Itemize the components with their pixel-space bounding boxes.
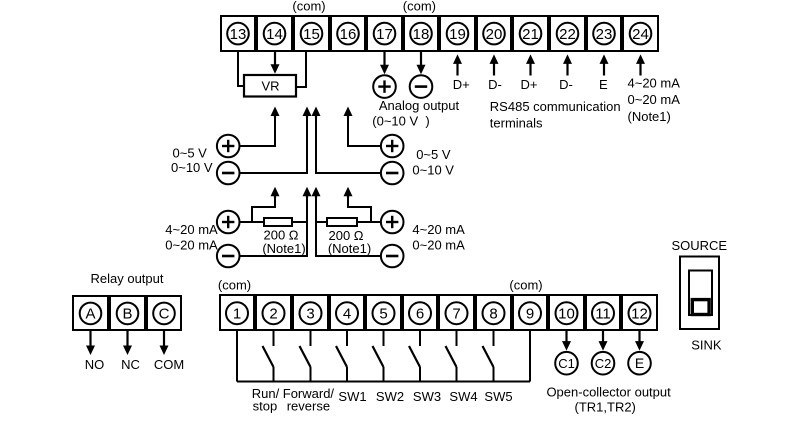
terminal 12	[629, 302, 651, 324]
svg-text:(com): (com)	[403, 0, 436, 14]
sink/source selector switch body	[680, 257, 719, 330]
terminal 22	[557, 23, 579, 45]
label SW5	[484, 389, 512, 404]
wire voltage + (right) to terminal 16	[344, 107, 381, 147]
node D+ (terminal 19)	[453, 77, 470, 92]
wire voltage - (left) to terminal 15	[240, 107, 312, 174]
node D- (terminal 22)	[559, 77, 573, 92]
svg-text:COM: COM	[154, 357, 184, 372]
svg-text:(TR1,TR2): (TR1,TR2)	[575, 400, 636, 415]
wire voltage + (left) to terminal 14	[240, 107, 280, 147]
svg-text:(Note1): (Note1)	[328, 241, 371, 256]
wire branch current + (left) to terminal 14	[252, 187, 280, 222]
arrow into terminal 22	[563, 54, 572, 75]
svg-text:D+: D+	[521, 77, 538, 92]
arrow terminal 11 to C2	[599, 330, 608, 351]
svg-text:22: 22	[559, 26, 576, 43]
svg-text:(com): (com)	[292, 0, 325, 14]
terminal 6	[409, 302, 431, 324]
svg-text:(com): (com)	[509, 277, 542, 292]
label SW4	[449, 389, 477, 404]
wire terminal 1 to common bus	[236, 330, 238, 382]
terminal block TB1 (terminals 13-24)	[221, 16, 658, 51]
svg-text:4~20 mA: 4~20 mA	[412, 222, 465, 237]
arrow terminal 17 to analog output +	[380, 52, 389, 74]
svg-text:0~10 V: 0~10 V	[412, 162, 454, 177]
svg-text:13: 13	[230, 26, 247, 43]
arrow into terminal 23	[600, 54, 609, 75]
svg-text:(Note1): (Note1)	[262, 241, 305, 256]
wire current - (left) to terminal 15	[240, 187, 312, 256]
svg-text:3: 3	[306, 305, 314, 322]
terminal 16	[337, 23, 359, 45]
label SW3	[413, 389, 441, 404]
wire branch current + (right) to terminal 16	[344, 187, 372, 222]
label (com) for terminal 9	[509, 277, 542, 292]
svg-text:2: 2	[269, 305, 277, 322]
arrow relay A to NO	[86, 331, 95, 355]
label Open-collector output (TR1,TR2)	[546, 384, 671, 414]
svg-text:D-: D-	[559, 77, 573, 92]
terminal block TB2 (terminals 1-12)	[220, 295, 657, 330]
label SW1	[338, 389, 366, 404]
relay terminal block (A,B,C)	[73, 296, 181, 330]
svg-text:SINK: SINK	[691, 337, 722, 352]
terminal 15	[301, 23, 323, 45]
svg-text:(com): (com)	[218, 277, 251, 292]
wire current + (right) through resistor	[315, 221, 381, 223]
svg-text:stop: stop	[253, 398, 278, 413]
terminal 13	[227, 23, 249, 45]
svg-text:B: B	[122, 306, 132, 323]
voltage input - node (right)	[381, 162, 404, 185]
label 0~5 V / 0~10 V (right)	[412, 147, 454, 177]
switch SW3 (terminal 6)	[409, 330, 420, 382]
svg-text:10: 10	[558, 305, 575, 322]
switch SW1 (terminal 4)	[336, 330, 347, 382]
svg-text:Open-collector output: Open-collector output	[546, 384, 671, 399]
wire terminal 9 to common bus	[529, 330, 531, 382]
terminal 10	[556, 302, 578, 324]
node E (terminal 23)	[599, 77, 608, 92]
arrow terminal 10 to C1	[562, 330, 571, 351]
svg-text:18: 18	[413, 26, 430, 43]
label Forward/reverse	[283, 386, 335, 413]
svg-text:15: 15	[303, 26, 320, 43]
svg-text:reverse: reverse	[287, 398, 330, 413]
svg-text:21: 21	[522, 26, 539, 43]
svg-text:9: 9	[526, 305, 534, 322]
svg-text:SW4: SW4	[449, 389, 477, 404]
terminal 8	[483, 302, 505, 324]
terminal 5	[373, 302, 395, 324]
svg-text:20: 20	[486, 26, 503, 43]
resistor 200 ohm (right)	[327, 218, 371, 256]
terminal 19	[447, 23, 469, 45]
label 4~20 mA / 0~20 mA (left)	[165, 222, 218, 252]
terminal 24	[630, 23, 652, 45]
svg-text:SOURCE: SOURCE	[671, 238, 727, 253]
terminal 1	[226, 302, 248, 324]
svg-text:(0~10 V ): (0~10 V )	[372, 113, 429, 128]
analog output - node	[410, 75, 433, 98]
svg-text:C: C	[159, 306, 170, 323]
relay terminal A	[80, 303, 102, 325]
label 4~20 mA / 0~20 mA (right)	[412, 222, 465, 252]
arrow into terminal 24	[636, 54, 645, 75]
terminal 21	[520, 23, 542, 45]
voltage input - node (left)	[217, 162, 240, 185]
terminal 3	[300, 302, 322, 324]
svg-text:7: 7	[452, 305, 460, 322]
svg-text:SW2: SW2	[376, 389, 404, 404]
switch SW5 (terminal 8)	[483, 330, 494, 382]
svg-text:16: 16	[340, 26, 357, 43]
svg-text:RS485 communication: RS485 communication	[490, 99, 621, 114]
svg-text:23: 23	[596, 26, 613, 43]
switch SW4 (terminal 7)	[446, 330, 457, 382]
switch SW2 (terminal 5)	[373, 330, 384, 382]
label COM	[154, 357, 184, 372]
label (com) for terminal 15	[292, 0, 325, 14]
current input - node (left)	[217, 245, 240, 268]
current input + node (right)	[381, 211, 404, 234]
open-collector node C2	[592, 352, 615, 375]
sink/source selector slot	[689, 271, 712, 316]
svg-text:0~10 V: 0~10 V	[171, 160, 213, 175]
svg-text:SW1: SW1	[338, 389, 366, 404]
arrow into terminal 20	[490, 54, 499, 75]
terminal 14	[264, 23, 286, 45]
label (com) for terminal 1	[218, 277, 251, 292]
svg-text:NC: NC	[121, 357, 140, 372]
terminal 9	[519, 302, 541, 324]
svg-text:E: E	[599, 77, 608, 92]
label Run/stop	[252, 386, 280, 413]
svg-text:NO: NO	[85, 357, 105, 372]
arrow relay B to NC	[123, 331, 132, 355]
open-collector node E	[628, 352, 651, 375]
arrow terminal 14 to VR wiper	[271, 52, 280, 74]
svg-text:8: 8	[489, 305, 497, 322]
svg-text:A: A	[85, 306, 95, 323]
svg-text:0~20 mA: 0~20 mA	[165, 237, 218, 252]
svg-text:VR: VR	[261, 79, 279, 94]
svg-text:0~5 V: 0~5 V	[416, 147, 451, 162]
label RS485 communication terminals	[490, 99, 621, 131]
open-collector node C1	[555, 352, 578, 375]
svg-text:SW5: SW5	[484, 389, 512, 404]
terminal 23	[593, 23, 615, 45]
svg-text:0~5 V: 0~5 V	[173, 145, 208, 160]
label 0~5 V / 0~10 V (left)	[171, 145, 213, 175]
wire terminal 15 to VR right	[296, 52, 306, 87]
svg-text:E: E	[635, 355, 644, 371]
svg-text:4: 4	[343, 305, 351, 322]
terminal 11	[592, 302, 614, 324]
svg-text:1: 1	[233, 305, 241, 322]
terminal 17	[374, 23, 396, 45]
common bus wire	[237, 381, 530, 383]
svg-text:terminals: terminals	[490, 116, 543, 131]
terminal 18	[410, 23, 432, 45]
svg-text:11: 11	[595, 305, 611, 322]
svg-text:(Note1): (Note1)	[628, 109, 671, 124]
svg-text:24: 24	[632, 26, 649, 43]
node D- (terminal 20)	[488, 77, 502, 92]
current input + node (left)	[217, 211, 240, 234]
svg-text:D-: D-	[488, 77, 502, 92]
relay terminal B	[117, 303, 139, 325]
svg-text:D+: D+	[453, 77, 470, 92]
label NC	[121, 357, 140, 372]
svg-text:14: 14	[266, 26, 283, 43]
label (com) for terminal 18	[403, 0, 436, 14]
arrow terminal 12 to E	[635, 330, 644, 351]
analog output + node	[373, 75, 396, 98]
voltage input + node (right)	[381, 135, 404, 158]
wire terminal 13 to VR left	[238, 52, 244, 86]
svg-text:Analog output: Analog output	[379, 98, 460, 113]
label SW2	[376, 389, 404, 404]
node D+ (terminal 21)	[521, 77, 538, 92]
svg-text:6: 6	[416, 305, 424, 322]
arrow relay C to COM	[160, 331, 169, 355]
svg-text:C1: C1	[558, 356, 575, 371]
svg-text:5: 5	[379, 305, 387, 322]
svg-text:4~20 mA: 4~20 mA	[628, 76, 681, 91]
switch Run/stop (terminal 2)	[263, 330, 274, 382]
svg-text:SW3: SW3	[413, 389, 441, 404]
label Relay output	[91, 271, 164, 286]
terminal 4	[336, 302, 358, 324]
label NO	[85, 357, 105, 372]
label Analog output (0~10 V)	[372, 98, 459, 129]
current input - node (right)	[381, 245, 404, 268]
svg-text:12: 12	[631, 305, 648, 322]
sink/source selector knob (SINK position)	[692, 300, 709, 315]
terminal 7	[446, 302, 468, 324]
terminal 2	[263, 302, 285, 324]
wire voltage - (right) to terminal 15	[312, 107, 381, 174]
voltage input + node (left)	[217, 135, 240, 158]
wire current - (right) to terminal 15	[312, 187, 381, 256]
svg-text:C2: C2	[595, 356, 612, 371]
terminal 20	[483, 23, 505, 45]
potentiometer VR	[244, 75, 296, 97]
label SINK	[691, 337, 722, 352]
relay terminal C	[153, 303, 175, 325]
label 4~20 mA / 0~20 mA (Note1) for terminal 24	[628, 76, 681, 124]
svg-text:17: 17	[376, 26, 393, 43]
svg-text:0~20 mA: 0~20 mA	[628, 92, 681, 107]
svg-text:0~20 mA: 0~20 mA	[412, 237, 465, 252]
svg-text:Relay output: Relay output	[91, 271, 164, 286]
switch Forward/reverse (terminal 3)	[300, 330, 311, 382]
label SOURCE	[671, 238, 727, 253]
resistor 200 ohm (left)	[262, 218, 305, 256]
svg-text:4~20 mA: 4~20 mA	[165, 222, 218, 237]
arrow into terminal 19	[453, 54, 462, 75]
arrow terminal 18 to analog output -	[417, 52, 426, 74]
svg-text:19: 19	[449, 26, 466, 43]
wire current + (left) through resistor	[240, 221, 309, 223]
arrow into terminal 21	[526, 54, 535, 75]
